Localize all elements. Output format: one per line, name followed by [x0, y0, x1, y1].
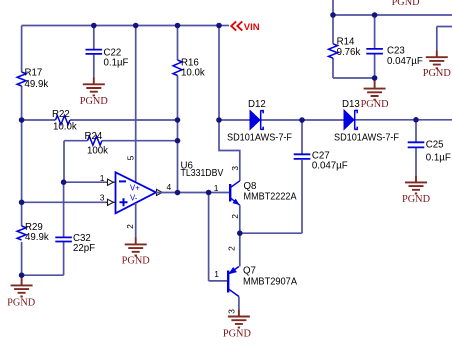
wire VIN node to Q8 collector [219, 120, 240, 181]
node top rail / U6 pin5 [133, 23, 139, 29]
svg-text:2: 2 [227, 246, 237, 251]
resistor R17 [17, 68, 48, 90]
svg-text:R22: R22 [52, 109, 70, 120]
svg-text:PGND: PGND [361, 99, 390, 110]
resistor R24 [85, 131, 109, 157]
wire base branch to Q7 [209, 193, 229, 281]
svg-text:PGND: PGND [392, 0, 421, 8]
wire left vertical mid [21, 120, 23, 202]
wire top rail VIN [22, 25, 219, 27]
svg-text:PGND: PGND [7, 297, 36, 308]
wire R16 vertical [177, 26, 179, 193]
ground PGND (C23) [361, 78, 390, 110]
svg-text:R24: R24 [85, 131, 103, 142]
svg-text:PGND: PGND [122, 255, 151, 266]
svg-text:10.0k: 10.0k [53, 122, 77, 133]
node rail2 / R14 [330, 12, 336, 18]
wire op-amp pin3 net [22, 201, 106, 203]
svg-text:Q8: Q8 [244, 181, 257, 192]
wire Q8 emitter vertical [239, 205, 241, 266]
wire D13 cathode out [356, 119, 452, 121]
wire C25 branch [415, 120, 417, 176]
capacitor C22 [86, 47, 129, 68]
ground PGND (U6 pin2) [122, 238, 151, 267]
ground PGND (C22) [80, 78, 109, 108]
op-amp U6 [100, 155, 224, 229]
wire C32 branch [22, 182, 64, 275]
wire C23 vertical [374, 15, 376, 78]
node top rail / C22 [91, 23, 97, 29]
wire C27 node to D13 anode [302, 119, 344, 121]
node rail2 / C23 [372, 12, 378, 18]
wire U6 pin5 [135, 26, 137, 183]
capacitor C25 [408, 140, 451, 164]
port VIN [219, 21, 260, 33]
svg-text:SD101AWS-7-F: SD101AWS-7-F [334, 132, 399, 143]
svg-text:TL331DBV: TL331DBV [181, 168, 224, 179]
svg-text:SD101AWS-7-F: SD101AWS-7-F [227, 132, 292, 143]
node top rail / VIN [216, 23, 222, 29]
svg-text:V-: V- [130, 194, 138, 203]
ground PGND (R29 bottom) [7, 275, 36, 308]
wire op-amp pin1 net [64, 181, 106, 183]
ground PGND (Q7) [223, 310, 252, 340]
node D13 / C25 [413, 117, 419, 123]
svg-text:Q7: Q7 [243, 265, 256, 276]
svg-text:2: 2 [125, 224, 135, 229]
svg-text:D12: D12 [248, 99, 266, 110]
svg-text:1: 1 [100, 173, 105, 183]
svg-text:R17: R17 [25, 68, 43, 79]
svg-text:0.1µF: 0.1µF [426, 153, 451, 164]
node output / Q7 branch [206, 190, 212, 196]
svg-text:MMBT2222A: MMBT2222A [244, 191, 298, 202]
capacitor C27 [294, 151, 348, 172]
wire VIN vertical [218, 26, 220, 121]
node left / R22 [19, 117, 25, 123]
wire R22 row [22, 119, 178, 121]
transistor Q8 MMBT2222A [214, 166, 297, 219]
transistor Q7 MMBT2907A [214, 246, 297, 314]
wire R14 vertical [333, 15, 375, 78]
svg-text:0.1µF: 0.1µF [104, 58, 129, 69]
svg-text:4: 4 [167, 182, 172, 192]
svg-text:0.047µF: 0.047µF [312, 161, 348, 172]
wire left vertical lower (to R29) [21, 202, 23, 275]
svg-text:PGND: PGND [402, 194, 431, 205]
wire emitter node to C27 bottom [240, 160, 302, 233]
capacitor C23 [366, 46, 423, 68]
wire U6 output row [156, 192, 230, 194]
diode D12 SD101AWS-7-F [227, 99, 292, 143]
svg-text:3: 3 [227, 309, 237, 314]
node pin1 / C32 [61, 179, 67, 185]
wire U6 pin2 to ground [135, 203, 137, 238]
wire D12 cathode to C27 node [262, 119, 303, 121]
resistor R16 [173, 58, 205, 79]
svg-text:PGND: PGND [223, 329, 252, 340]
svg-text:C23: C23 [387, 46, 405, 57]
svg-text:0.047µF: 0.047µF [387, 56, 423, 67]
node R14 / C23 ground [372, 75, 378, 81]
svg-text:D13: D13 [342, 99, 360, 110]
wire C22 branch [93, 26, 95, 78]
svg-text:PGND: PGND [423, 68, 452, 79]
ground PGND (C25) [402, 176, 431, 205]
node output / R16 [175, 190, 181, 196]
svg-text:MMBT2907A: MMBT2907A [243, 276, 298, 287]
svg-text:3: 3 [230, 166, 240, 171]
node left bottom / C32 [19, 272, 25, 278]
svg-text:PGND: PGND [80, 96, 109, 107]
svg-text:VIN: VIN [244, 22, 260, 33]
svg-text:49.9k: 49.9k [25, 232, 49, 243]
node R16 / R22 [175, 117, 181, 123]
wire left vertical upper (to R17) [21, 26, 23, 121]
svg-text:100k: 100k [87, 146, 108, 157]
svg-text:22pF: 22pF [73, 243, 95, 254]
resistor R22 [52, 109, 77, 133]
wire C27 top [301, 120, 303, 154]
capacitor C32 [55, 233, 95, 254]
svg-text:9.76k: 9.76k [337, 47, 361, 58]
svg-text:1: 1 [214, 183, 219, 193]
node Q8 emitter / C27 [237, 230, 243, 236]
svg-text:R14: R14 [337, 36, 355, 47]
node left / pin3 [19, 200, 25, 206]
node top rail / R16 [175, 23, 181, 29]
svg-text:V+: V+ [130, 184, 140, 193]
svg-text:2: 2 [230, 214, 240, 219]
wire Q7 collector to ground [238, 297, 240, 310]
svg-text:10.0k: 10.0k [181, 68, 205, 79]
node D12 / C27 [299, 117, 305, 123]
node R16 / R24 [175, 138, 181, 144]
resistor R14 [329, 36, 361, 58]
wire R24 row [64, 141, 178, 183]
wire D12 anode [219, 119, 250, 121]
svg-text:5: 5 [126, 155, 136, 160]
svg-text:3: 3 [100, 192, 105, 202]
svg-text:49.9k: 49.9k [25, 79, 49, 90]
svg-text:1: 1 [214, 269, 219, 279]
svg-text:C25: C25 [426, 140, 444, 151]
wire top-right rail [333, 0, 452, 15]
node VIN / D12 [216, 117, 222, 123]
resistor R29 [17, 222, 49, 243]
diode D13 SD101AWS-7-F [334, 99, 399, 144]
wire right ground tap [437, 27, 452, 51]
ground PGND (top right) [423, 50, 452, 79]
